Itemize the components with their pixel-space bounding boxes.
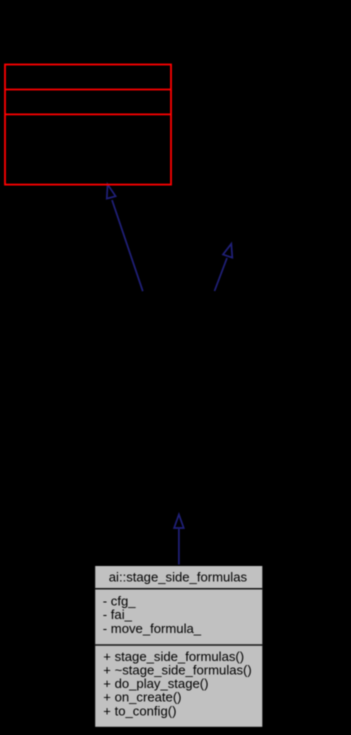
svg-text:ai::stage_side_formulas: ai::stage_side_formulas <box>109 569 248 584</box>
node: red class box (empty, three compartments) <box>5 65 171 185</box>
inheritance arrow (left, to red box) <box>107 184 143 291</box>
svg-text:+ on_create(): + on_create() <box>103 689 181 704</box>
inheritance arrow (right, to invisible node) <box>215 244 233 291</box>
node: ai::stage_side_formulas (gray class box) <box>95 565 264 727</box>
svg-text:+ to_config(): + to_config() <box>103 703 176 718</box>
svg-text:- move_formula_: - move_formula_ <box>103 621 202 636</box>
inheritance arrow (vertical, from gray box) <box>174 515 184 565</box>
